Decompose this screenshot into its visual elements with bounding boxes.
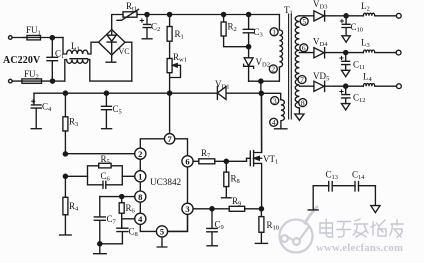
transformer secondary winding 5-8: [295, 16, 299, 108]
node junction R2/rail: [222, 12, 226, 16]
pin 3 circle: [182, 203, 193, 214]
node junction C5/bus: [104, 91, 108, 95]
watermark text 电子发烧友 (simplified glyph blocks): [320, 219, 403, 237]
wire: [346, 52, 364, 54]
node junction VCC bus / drain column: [259, 91, 263, 95]
svg-text:1: 1: [138, 172, 142, 182]
node junction R3/bus: [63, 91, 67, 95]
wire pin2 to divider: [65, 153, 134, 155]
terminal output 3: [397, 84, 402, 89]
pin 6: [300, 44, 308, 52]
node junction source/R10: [259, 207, 263, 211]
wire pin7 to bus: [169, 93, 171, 133]
svg-text:www.elecfans.com: www.elecfans.com: [316, 242, 403, 254]
IC ring wires: [140, 139, 187, 232]
op-amp U1 pin 7 circle: [164, 134, 174, 144]
ground (C7/C8): [94, 244, 107, 254]
inductor L1 common-mode choke: [63, 38, 99, 55]
ground arrow C10: [342, 36, 350, 42]
svg-text:7: 7: [167, 134, 172, 144]
svg-text:2: 2: [271, 65, 275, 74]
node junction R7/R8: [224, 159, 228, 163]
capacitor C3: [243, 15, 254, 47]
pin 1 circle: [135, 171, 146, 182]
pin 2 circle: [135, 148, 146, 159]
svg-text:1: 1: [272, 28, 276, 37]
diode VD4: [314, 48, 346, 58]
svg-text:3: 3: [273, 96, 277, 105]
pin 3: [271, 97, 279, 105]
ground (R10 bar): [255, 242, 267, 244]
svg-text:UC3842: UC3842: [150, 177, 182, 187]
node junction C10: [344, 14, 348, 18]
resistor R5 / capacitor C6 loop: [88, 166, 123, 185]
ground (C2 bar): [142, 38, 152, 40]
capacitor C12: [342, 86, 350, 103]
ground arrow secondary bottom: [295, 108, 304, 120]
wire: [12, 37, 27, 39]
ground (C5 bar): [102, 128, 112, 130]
resistor R6: [121, 197, 123, 229]
node junction C12: [344, 84, 348, 88]
ground (R4 bar): [60, 234, 72, 236]
wire pin3 row: [193, 208, 229, 210]
node junction R1/rail: [168, 12, 172, 16]
pin 5: [300, 17, 308, 25]
svg-text:8: 8: [301, 98, 305, 107]
svg-text:AC220V: AC220V: [3, 55, 41, 66]
capacitor C1: [47, 38, 58, 81]
pin 4: [270, 118, 278, 126]
svg-text:5: 5: [302, 17, 306, 26]
svg-text:7: 7: [300, 75, 304, 84]
wire pin1 to R5C6: [65, 175, 134, 177]
node junction pin2/divider: [63, 152, 67, 156]
resistor R8: [225, 161, 227, 197]
svg-text:6: 6: [302, 44, 306, 53]
inductor L4: [363, 84, 396, 87]
svg-text:4: 4: [272, 118, 276, 127]
wire output row3: [299, 85, 314, 87]
inductor L3: [363, 50, 396, 53]
pin 2: [269, 65, 277, 73]
svg-text:8: 8: [138, 192, 142, 202]
wire clamp line pin2: [249, 80, 279, 82]
wire: [52, 37, 63, 39]
capacitor C7: [94, 197, 105, 244]
node junction clamp/drain: [259, 79, 263, 83]
ground (R8 bar): [222, 197, 232, 199]
ground arrow C14: [371, 186, 380, 213]
inductor L2: [363, 13, 396, 16]
zener diode VD2: [244, 47, 254, 81]
wire VCC bus left segment: [34, 92, 170, 94]
resistor R4: [64, 176, 66, 234]
wire: [346, 15, 363, 17]
ground arrow C11: [342, 70, 350, 76]
terminal input bottom: [9, 79, 13, 83]
transformer core: [289, 14, 292, 119]
svg-text:2: 2: [138, 149, 142, 159]
capacitor C13 C14 Y-caps: [313, 185, 375, 187]
node junction C9: [210, 207, 214, 211]
watermark logo: [280, 207, 318, 253]
ground (C9 bar): [207, 245, 217, 247]
svg-text:VC: VC: [119, 47, 130, 56]
wire output row2: [299, 52, 314, 54]
capacitor C2 (electrolytic): [143, 15, 151, 39]
resistor R2: [224, 15, 249, 47]
wire pin6 to R7: [193, 160, 199, 162]
pin 5 circle: [156, 226, 167, 237]
node junction pin8/R6: [120, 195, 124, 199]
wire pin5 to pin3: [168, 214, 188, 231]
resistor R1: [169, 15, 171, 59]
ground (winding 4 bar): [275, 128, 288, 130]
transformer T1 primary winding 1-2: [279, 15, 282, 82]
node junction pin7 column/bus: [168, 91, 172, 95]
svg-text:5: 5: [160, 227, 164, 237]
svg-text:4: 4: [138, 214, 143, 224]
terminal output 1: [396, 13, 401, 18]
capacitor C8: [117, 228, 128, 244]
wire bus to winding 3: [261, 93, 280, 99]
pin 1: [270, 28, 278, 36]
node junction C2/rail: [145, 12, 149, 16]
bridge rectifier VC: [99, 30, 126, 56]
resistor R3: [64, 93, 66, 154]
pin 7 transformer: [298, 76, 306, 84]
ground pin5: [157, 237, 167, 247]
pin 6 circle: [182, 156, 193, 167]
wire pin4: [122, 219, 135, 228]
resistor R10: [260, 209, 262, 243]
wire bridge right vertex down: [125, 42, 132, 81]
node junction C3/rail: [247, 12, 251, 16]
node junction R2-C3: [247, 45, 251, 49]
capacitor C9: [207, 209, 217, 246]
terminal output 2: [396, 50, 401, 55]
diode VD1: [170, 87, 262, 100]
resistor R9: [229, 206, 245, 211]
wire: [53, 80, 65, 82]
diode VD5: [314, 81, 346, 91]
wire bridge top to rail: [112, 15, 123, 30]
capacitor C4 (electrolytic): [31, 93, 41, 128]
capacitor C11: [342, 53, 350, 71]
svg-text:6: 6: [185, 157, 189, 167]
terminal input top: [9, 36, 13, 40]
capacitor C5: [101, 93, 111, 128]
pin 8 circle: [135, 191, 146, 202]
ground (bridge negative bar): [106, 55, 116, 62]
node junction C7 gnd: [98, 242, 102, 246]
ground (C4 bar): [31, 128, 41, 130]
wire drain column: [260, 81, 263, 152]
thermistor Rt1: [123, 12, 137, 17]
node junction C11: [344, 51, 348, 55]
diode VD3: [314, 11, 346, 21]
node junction pin1/divider: [63, 174, 67, 178]
node junction top AC: [50, 36, 54, 40]
transistor VT1 MOSFET: [247, 93, 262, 209]
node junction bottom AC: [50, 79, 54, 83]
potentiometer Rw1: [167, 59, 172, 73]
wire C7/C8 bottom: [100, 243, 123, 245]
wire pin8: [100, 196, 135, 198]
fuse FU1: [27, 36, 41, 40]
capacitor C10: [342, 16, 350, 36]
wire output row1: [299, 15, 314, 17]
transformer T1 winding 3-4: [281, 100, 285, 129]
pin 4 circle: [135, 213, 146, 224]
resistor R7: [199, 159, 215, 164]
fuse FU2: [22, 79, 42, 83]
wire: [346, 85, 364, 87]
svg-text:3: 3: [185, 204, 189, 214]
ground arrow C12: [342, 104, 350, 110]
pin 8: [299, 99, 307, 107]
